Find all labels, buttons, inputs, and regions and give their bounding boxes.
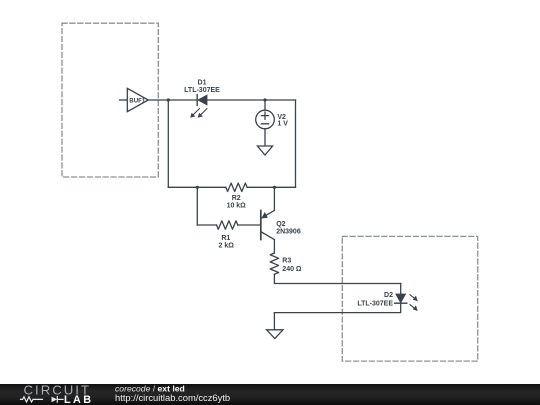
wire: R2 rail right segment [247,186,295,188]
svg-text:Q2: Q2 [276,221,285,228]
diode D2 LTL-307EE (LED) [395,294,407,303]
ground symbol bottom [267,330,283,339]
node junction R2 rail left [196,186,199,189]
footer bar [0,384,540,405]
node junction R2 rail right (emitter) [273,186,276,189]
wire: V2 bottom to ground [264,129,266,146]
svg-text:1 V: 1 V [277,120,288,127]
wire: lower rail down to ground [273,313,275,330]
svg-text:R2: R2 [232,195,241,202]
svg-text:R3: R3 [282,258,291,265]
wire: R3 bottom to D2 top rail [274,274,400,283]
svg-text:LTL-307EE: LTL-307EE [184,87,220,94]
svg-text:D2: D2 [384,292,393,299]
resistor R3 [270,253,278,274]
wire: D2 bottom to lower rail [274,303,400,312]
wire: BUF1 output to D1 [148,99,197,101]
wire: Q2 collector down to R3 [273,240,275,253]
D2 light-emission arrows [410,295,418,311]
voltage source V2 [256,110,275,129]
svg-text:BUF1: BUF1 [129,97,146,104]
wire: R2 rail left segment [168,186,226,188]
transistor Q2 2N3906 [261,210,275,239]
ground symbol under V2 [257,146,272,155]
resistor R1 [217,221,238,229]
wire: BUF1 input stub [120,99,128,101]
wire: right vertical from top rail to R2 rail [295,100,297,187]
dashed subcircuit box 2 (bottom-right) [342,236,477,361]
diode D1 LTL-307EE (LED) [197,95,207,106]
wire: R1 right segment to Q2 base [238,224,260,226]
svg-text:LTL-307EE: LTL-307EE [357,301,393,308]
D1 light-emission arrows [190,109,207,118]
wire: down from R2 rail to R1 [196,187,198,225]
wire: D1 to right vertical [207,99,296,101]
svg-text:R1: R1 [221,235,230,242]
svg-text:240 Ω: 240 Ω [282,266,302,273]
dashed subcircuit box 1 (top-left) [62,23,158,177]
op-amp buffer BUF1 [127,88,148,111]
node junction at BUF1 output [167,98,170,101]
svg-text:10 kΩ: 10 kΩ [227,203,247,210]
wire: R1 left segment [197,224,216,226]
svg-text:2N3906: 2N3906 [276,229,301,236]
wire: down to D2 [400,284,402,295]
node junction above V2 [263,98,266,101]
wire: Q2 emitter up to rail [273,187,275,210]
svg-text:http://circuitlab.com/ccz6ytb: http://circuitlab.com/ccz6ytb [115,392,230,403]
wire: left vertical from BUF1 node to R2 rail [167,100,169,187]
wire: node to V2 top [264,100,266,110]
svg-text:LAB: LAB [64,394,93,405]
svg-text:D1: D1 [198,80,207,87]
resistor R2 [226,183,247,191]
svg-text:2 kΩ: 2 kΩ [219,242,235,249]
CircuitLab logo: resistor squiggle and diode [21,397,64,403]
